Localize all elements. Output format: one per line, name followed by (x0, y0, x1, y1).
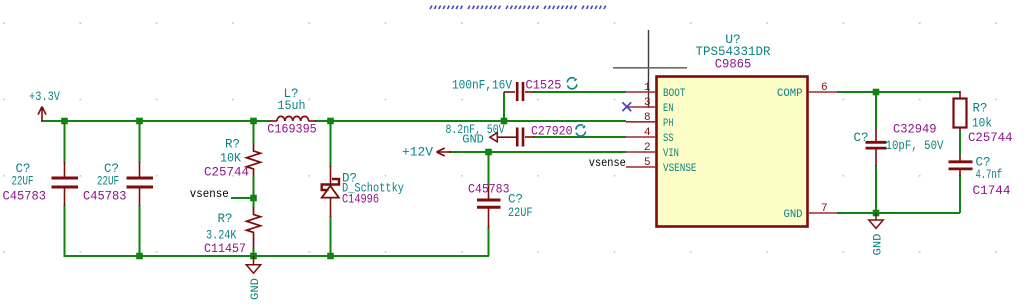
svg-text:VSENSE: VSENSE (663, 163, 697, 175)
pin 8 PH (626, 121, 656, 123)
wire diode branch (330, 121, 332, 167)
wire bottom GND rail (64, 255, 490, 257)
rotate icon C1525 (567, 78, 577, 89)
node junction vin-C3 (485, 149, 492, 156)
svg-text:22UF: 22UF (97, 174, 119, 188)
capacitor C27920 8.2nF (525, 136, 534, 138)
capacitor C5 C32949 10pF (875, 129, 877, 143)
svg-text:C45783: C45783 (3, 190, 47, 204)
svg-text:C9865: C9865 (715, 58, 752, 72)
node junction rail-diode (327, 118, 334, 125)
svg-text:EN: EN (663, 103, 674, 115)
wire R1-R2 branch (253, 121, 255, 144)
svg-text:+12V: +12V (402, 146, 434, 160)
power flag +3.3V (38, 107, 46, 122)
svg-text:COMP: COMP (777, 88, 803, 100)
ground symbol below R2 (246, 256, 260, 273)
svg-text:100nF,16V: 100nF,16V (452, 79, 512, 93)
resistor R2 3.24K (247, 207, 261, 249)
svg-text:22UF: 22UF (12, 174, 34, 188)
ground flag at C27920 (490, 133, 498, 142)
svg-text:C45783: C45783 (83, 190, 127, 204)
svg-text:R?: R? (218, 212, 233, 226)
wire +3.3V top rail right of inductor (315, 120, 626, 122)
node junction rail-bootstrap (501, 118, 508, 125)
svg-text:C1744: C1744 (973, 184, 1011, 198)
svg-text:C?: C? (508, 193, 523, 207)
svg-text:8.2nF, 50V: 8.2nF, 50V (446, 123, 505, 137)
svg-text:15uh: 15uh (278, 99, 306, 113)
svg-text:8: 8 (644, 112, 651, 124)
resistor R1 10K (247, 144, 261, 177)
svg-text:C14996: C14996 (342, 193, 379, 207)
svg-text:C25744: C25744 (968, 131, 1013, 145)
svg-text:vsense: vsense (190, 187, 229, 201)
svg-text:3: 3 (644, 97, 651, 109)
svg-text:R?: R? (225, 138, 240, 152)
wire GND bottom right (837, 212, 960, 214)
pin 7 GND (808, 212, 838, 214)
svg-text:C27920: C27920 (531, 124, 573, 138)
diode D1 D_Schottky (322, 166, 339, 217)
cursor crosshair (648, 30, 650, 108)
capacitor C1 22UF (64, 162, 66, 177)
power flag +12V (437, 148, 452, 156)
svg-text:GND: GND (250, 278, 262, 300)
node junction gnd-R2 (250, 253, 257, 260)
wire COMP drop to R3 (959, 91, 961, 98)
capacitor C2 22UF (139, 162, 141, 177)
svg-text:C45783: C45783 (468, 182, 510, 196)
rotate icon C27920 (576, 125, 586, 136)
node junction vsense (250, 195, 257, 202)
pin 2 VIN (626, 151, 656, 153)
svg-text:C11457: C11457 (204, 242, 246, 256)
svg-text:22UF: 22UF (508, 206, 533, 220)
node junction rail-C1 (61, 118, 68, 125)
svg-text:VIN: VIN (663, 148, 679, 160)
svg-text:C1525: C1525 (526, 79, 562, 93)
wire SS to pin (533, 136, 626, 138)
svg-text:4.7nf: 4.7nf (976, 168, 1003, 182)
ground symbol right (869, 213, 883, 228)
pin 3 EN (626, 106, 656, 108)
node junction rail-C2 (136, 118, 143, 125)
no-connect X on EN (622, 102, 631, 111)
node junction comp-C5 (873, 89, 880, 96)
capacitor C4 4.7nf (959, 156, 961, 161)
node junction gnd-diode (327, 253, 334, 260)
svg-text:GND: GND (873, 233, 885, 255)
wire C3 branch (488, 152, 490, 187)
svg-text:1: 1 (644, 82, 651, 94)
pin 5 VSENSE (626, 166, 656, 168)
svg-text:+3.3V: +3.3V (29, 90, 60, 104)
wire COMP net (837, 91, 960, 93)
resistor R3 10k box (954, 99, 967, 128)
pin 4 SS (626, 136, 656, 138)
op-amp U1 TPS54331DR body (657, 77, 808, 227)
pin 1 BOOT (626, 91, 656, 93)
svg-text:C32949: C32949 (893, 123, 937, 137)
svg-text:C?: C? (854, 131, 869, 145)
svg-text:7: 7 (821, 203, 828, 215)
node junction gnd-C2 (136, 253, 143, 260)
wire C1 branch (64, 121, 66, 163)
svg-text:4: 4 (644, 127, 651, 139)
capacitor C3 22UF input (488, 186, 490, 199)
capacitor C1525 100nF (504, 91, 515, 93)
wire C2 branch (139, 121, 141, 163)
svg-text:5: 5 (644, 157, 651, 169)
wire bootstrap vertical (503, 92, 505, 121)
wire bootstrap to BOOT pin (533, 91, 626, 93)
wire +3.3V top rail left (41, 120, 271, 122)
svg-text:10k: 10k (972, 116, 992, 130)
svg-text:BOOT: BOOT (663, 88, 686, 100)
svg-text:PH: PH (663, 118, 674, 130)
svg-text:10pF, 50V: 10pF, 50V (886, 139, 944, 153)
pin 6 COMP (808, 91, 838, 93)
svg-text:SS: SS (663, 133, 674, 145)
svg-text:C25744: C25744 (204, 166, 249, 180)
svg-text:3.24K: 3.24K (206, 229, 237, 243)
wire C4 to bottom (959, 175, 961, 213)
wire R3 to C4 (959, 128, 961, 133)
wire comp cap branch top (875, 92, 877, 129)
svg-text:C169395: C169395 (267, 123, 317, 137)
wire comp cap branch bottom (875, 165, 877, 213)
svg-text:R?: R? (973, 102, 988, 116)
wire vsense stub (231, 197, 254, 199)
svg-text:GND: GND (784, 209, 803, 221)
svg-text:6: 6 (821, 82, 828, 94)
inductor L1 15uh (270, 120, 277, 122)
svg-text:10K: 10K (220, 152, 241, 166)
selection dotted line (430, 6, 606, 9)
node junction rail-R1 (250, 118, 257, 125)
wire +12V to VIN pin (449, 151, 626, 153)
node junction gnd-right (873, 210, 880, 217)
svg-text:2: 2 (644, 142, 651, 154)
svg-text:vsense: vsense (589, 157, 626, 170)
